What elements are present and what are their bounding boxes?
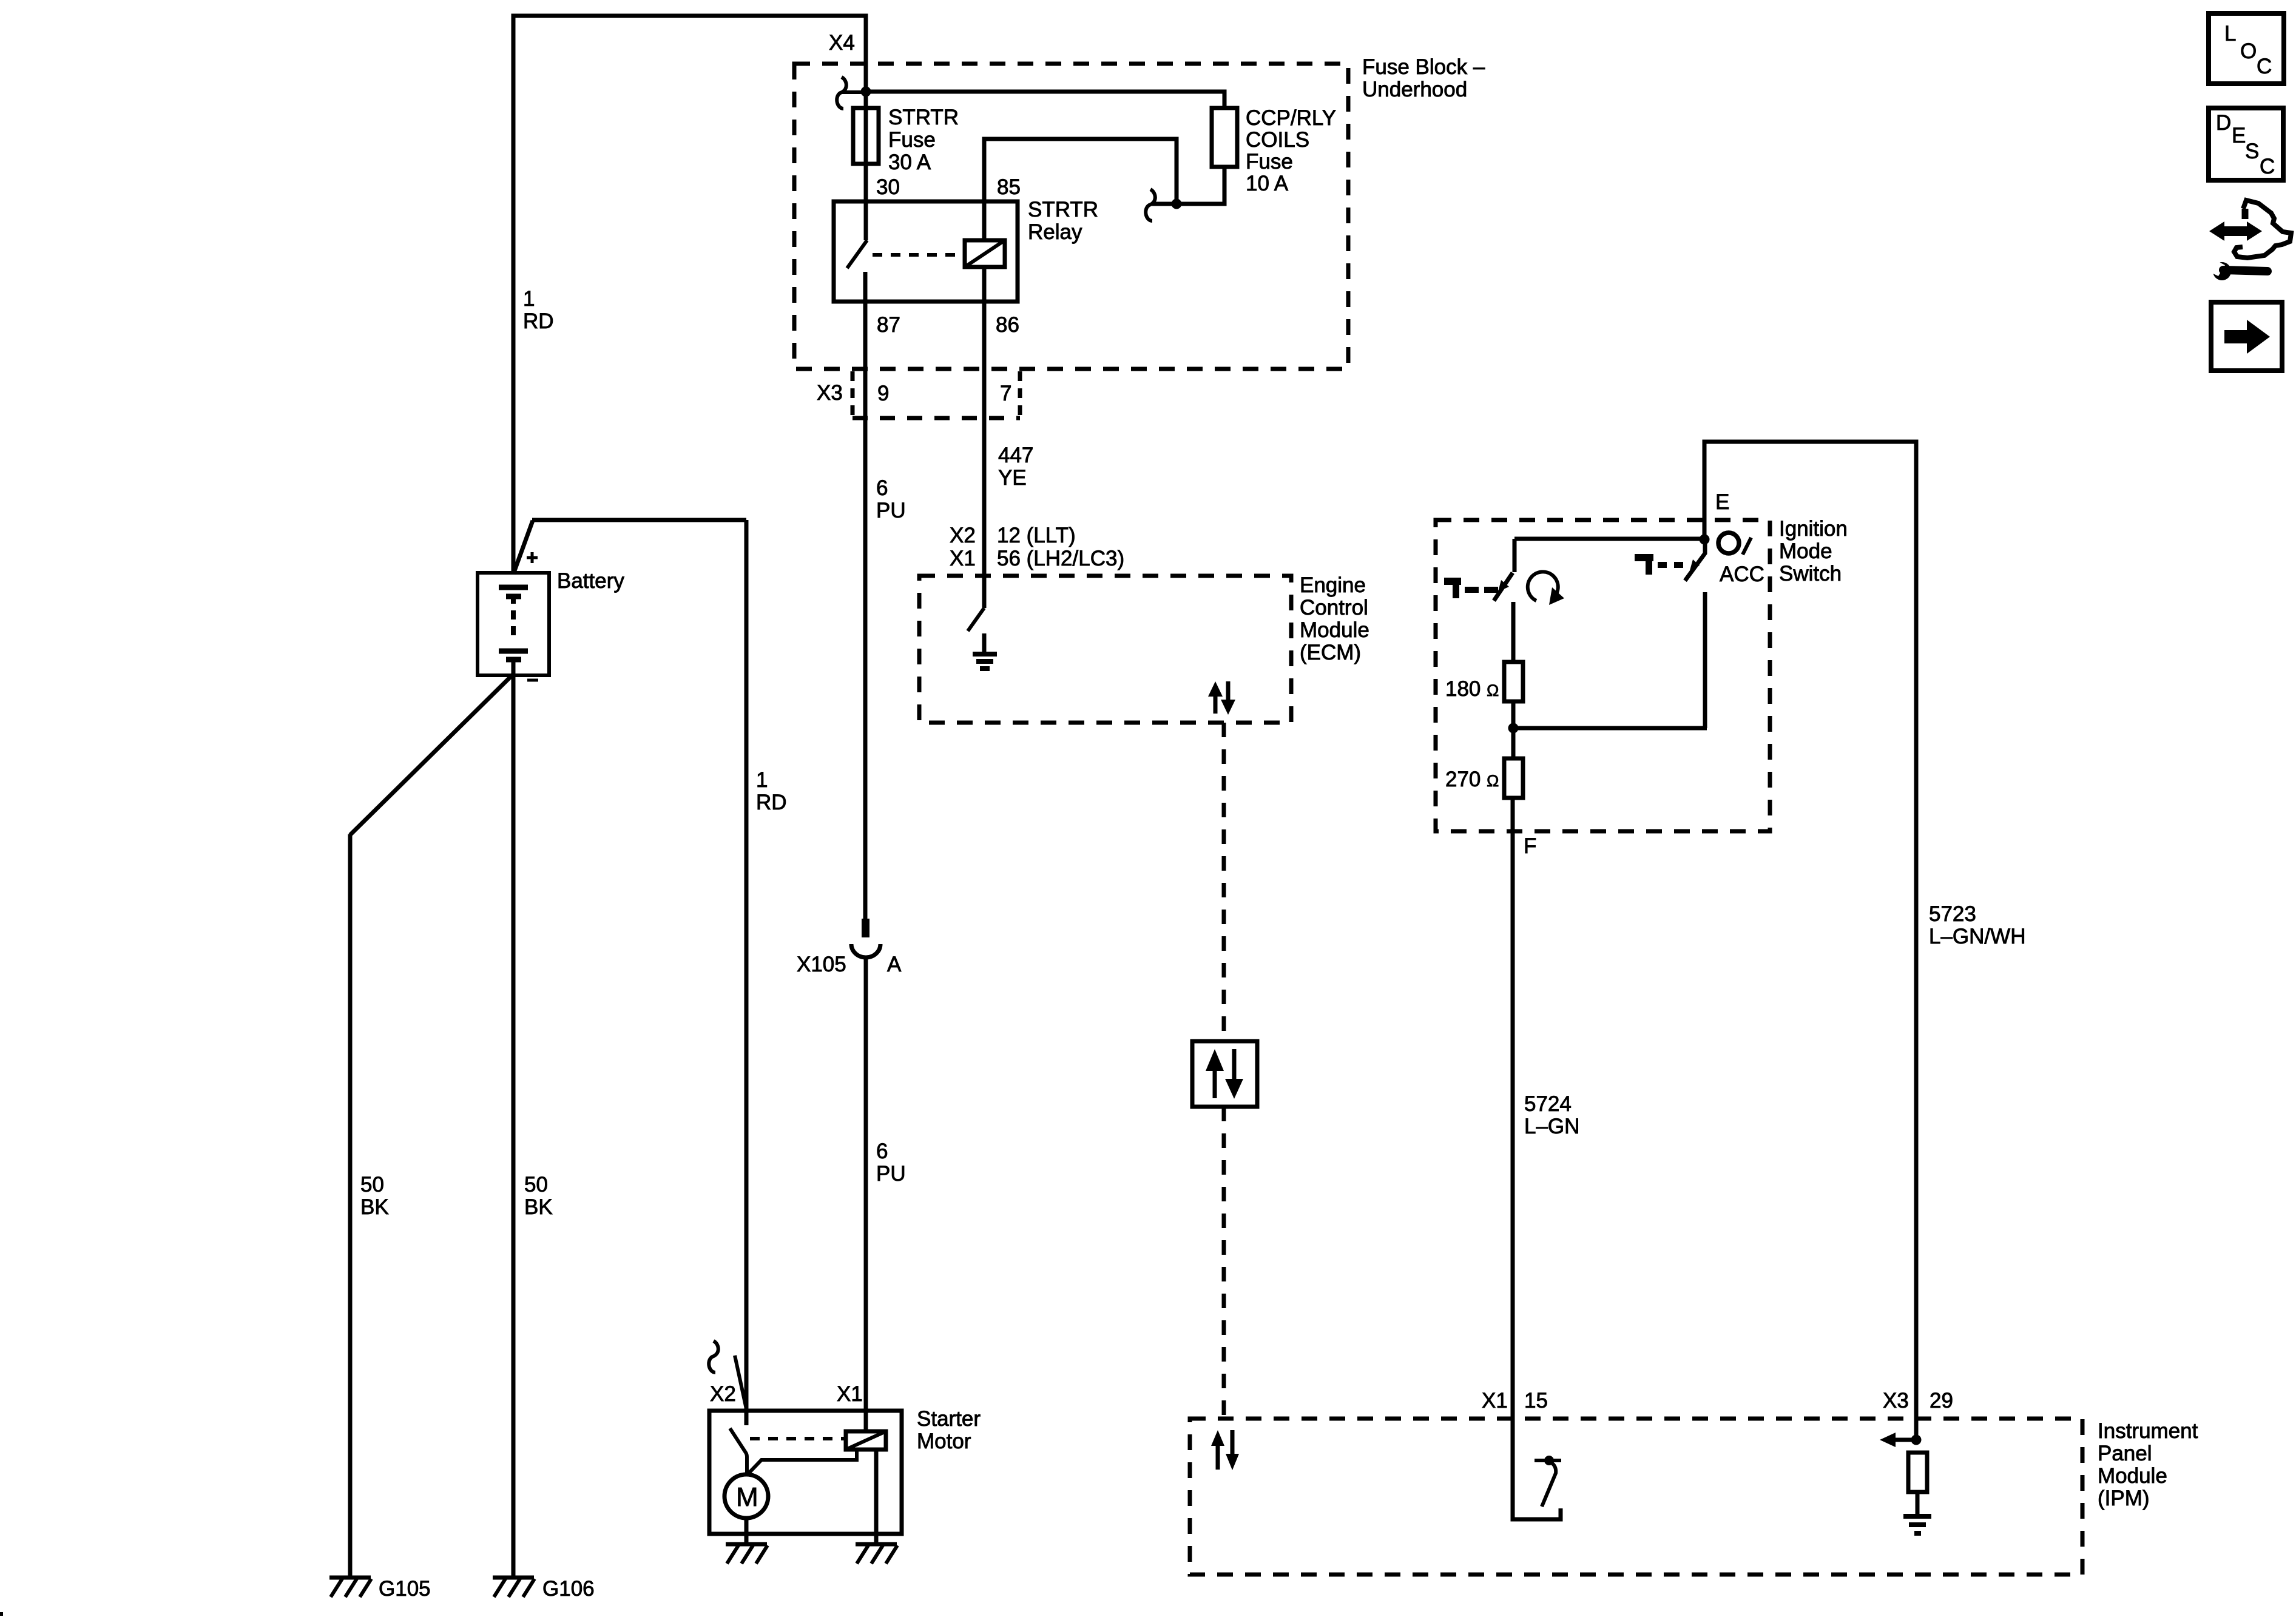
svg-text:Ignition: Ignition bbox=[1779, 517, 1848, 541]
wire motor to ground bbox=[745, 1518, 749, 1544]
svg-text:C: C bbox=[2257, 55, 2272, 78]
svg-text:STRTR: STRTR bbox=[1028, 198, 1098, 221]
ECM dashed box bbox=[919, 576, 1291, 723]
svg-text:Fuse: Fuse bbox=[1246, 150, 1293, 174]
serial data link box bbox=[1192, 1041, 1257, 1107]
svg-text:X1: X1 bbox=[1482, 1389, 1508, 1413]
svg-text:10 A: 10 A bbox=[1246, 172, 1289, 195]
svg-text:ACC: ACC bbox=[1720, 562, 1764, 586]
wire relay coil to pin 86 down to ECM bbox=[982, 267, 987, 608]
svg-text:30 A: 30 A bbox=[888, 150, 931, 174]
relay switch output stub pin 87 bbox=[863, 272, 868, 919]
svg-text:COILS: COILS bbox=[1246, 128, 1309, 152]
wire from X4 node through STRTR fuse to relay pin 30 bbox=[864, 92, 868, 240]
IPM serial data arrows bbox=[1211, 1430, 1239, 1470]
svg-text:X3: X3 bbox=[817, 381, 843, 405]
node X4 junction dot bbox=[861, 87, 871, 97]
svg-text:RD: RD bbox=[523, 309, 554, 333]
wire solenoid coil to ground bbox=[874, 1450, 879, 1544]
svg-text:6: 6 bbox=[876, 1139, 888, 1163]
run switch linkage bracket bbox=[1444, 578, 1461, 598]
node CCP junction dot bbox=[1172, 199, 1182, 209]
icon LOC box bbox=[2209, 13, 2284, 84]
svg-text:X3: X3 bbox=[1883, 1389, 1909, 1413]
serial data link arrows bbox=[1206, 1049, 1243, 1099]
node 5723 IPM junction dot bbox=[1911, 1435, 1922, 1445]
svg-text:Fuse: Fuse bbox=[888, 128, 936, 152]
wire solenoid to motor link bbox=[747, 1451, 857, 1475]
IPM pull resistor bbox=[1908, 1453, 1927, 1492]
svg-text:F: F bbox=[1524, 834, 1536, 858]
ACC switch linkage bracket bbox=[1635, 554, 1653, 575]
svg-text:Battery: Battery bbox=[557, 569, 624, 593]
svg-text:X1: X1 bbox=[950, 547, 976, 570]
icon DESC box bbox=[2209, 108, 2283, 180]
svg-text:Module: Module bbox=[1300, 618, 1369, 642]
svg-text:G106: G106 bbox=[542, 1577, 595, 1601]
ground starter motor bbox=[726, 1544, 768, 1564]
svg-text:BK: BK bbox=[524, 1195, 553, 1219]
wire positive feed horizontal to starter branch bbox=[532, 518, 746, 522]
svg-text:L–GN/WH: L–GN/WH bbox=[1929, 925, 2025, 948]
svg-text:BK: BK bbox=[360, 1195, 389, 1219]
svg-text:30: 30 bbox=[876, 175, 900, 199]
icon service double arrow bbox=[2209, 221, 2262, 241]
svg-text:29: 29 bbox=[1930, 1389, 1953, 1413]
svg-text:D: D bbox=[2216, 111, 2231, 135]
fuse STRTR 30A body bbox=[853, 108, 879, 164]
fuse block underhood dashed box bbox=[794, 64, 1348, 369]
ground G106 symbol bbox=[493, 1578, 535, 1597]
svg-text:RD: RD bbox=[756, 791, 787, 814]
svg-text:PU: PU bbox=[876, 1162, 906, 1186]
relay STRTR box bbox=[834, 201, 1018, 302]
ECM ground bars bbox=[973, 652, 997, 657]
svg-text:15: 15 bbox=[1524, 1389, 1548, 1413]
wire resistor to IPM ground bbox=[1916, 1492, 1920, 1515]
ground starter solenoid bbox=[856, 1544, 897, 1564]
wire 50 BK to G105 bbox=[348, 834, 353, 1578]
battery plus sign bbox=[527, 552, 538, 563]
svg-text:Control: Control bbox=[1300, 596, 1368, 619]
svg-text:Instrument: Instrument bbox=[2098, 1419, 2198, 1443]
starter actuate dashes bbox=[750, 1437, 845, 1440]
IPM ground bars bbox=[1903, 1516, 1931, 1533]
svg-text:L–GN: L–GN bbox=[1524, 1115, 1579, 1138]
svg-text:PU: PU bbox=[876, 499, 906, 522]
run switch linkage dashes bbox=[1465, 587, 1499, 593]
svg-text:447: 447 bbox=[998, 444, 1033, 467]
wire battery positive diagonal to feed bbox=[513, 521, 533, 574]
svg-text:Starter: Starter bbox=[917, 1407, 981, 1431]
connector X3 right dashes bbox=[1018, 371, 1022, 419]
svg-text:A: A bbox=[887, 953, 902, 976]
svg-text:1: 1 bbox=[756, 768, 768, 792]
starter solenoid coil diagonal bbox=[846, 1431, 886, 1450]
svg-text:O: O bbox=[2240, 39, 2257, 63]
fuse CCP/RLY COILS 10A body bbox=[1212, 108, 1237, 167]
ACC switch linkage dashes bbox=[1658, 562, 1684, 568]
resistor 270 ohm bbox=[1504, 758, 1523, 798]
wire ignition top crossbar bbox=[1514, 537, 1703, 541]
battery bottom cell plates bbox=[499, 649, 528, 654]
ECM internal switch blade bbox=[968, 608, 984, 631]
relay coil diagonal bbox=[965, 240, 1005, 267]
svg-text:E: E bbox=[2232, 124, 2246, 147]
IPM switch contact dot bbox=[1544, 1456, 1554, 1465]
ignition mode switch dashed box bbox=[1436, 520, 1770, 831]
svg-text:9: 9 bbox=[877, 382, 889, 405]
wire run blade to 180 ohm resistor bbox=[1511, 602, 1516, 662]
starter switch blade bbox=[730, 1428, 747, 1475]
connector X3 bottom dashes bbox=[853, 416, 1020, 420]
wire CCP fuse down to junction bbox=[1152, 167, 1224, 204]
svg-text:STRTR: STRTR bbox=[888, 106, 959, 129]
svg-text:(ECM): (ECM) bbox=[1300, 641, 1361, 664]
wire terminal E up and over to 5723 run bbox=[1704, 442, 1916, 1440]
svg-text:5723: 5723 bbox=[1929, 902, 1976, 926]
svg-text:50: 50 bbox=[524, 1173, 548, 1197]
wire hook diagonal to X2 wire bbox=[735, 1355, 746, 1409]
svg-text:M: M bbox=[736, 1482, 758, 1512]
svg-text:Fuse Block –: Fuse Block – bbox=[1362, 55, 1485, 79]
battery cable hook at starter X2 bbox=[709, 1341, 718, 1372]
slash after key circle bbox=[1743, 538, 1751, 555]
wire junction to relay pin 85 bbox=[984, 139, 1177, 240]
ACC switch blade bbox=[1685, 540, 1705, 581]
IPM dashed box bbox=[1190, 1419, 2082, 1575]
wire divider node to ACC contact bbox=[1513, 726, 1707, 731]
battery internal dashes bbox=[511, 599, 516, 647]
svg-text:Engine: Engine bbox=[1300, 573, 1366, 597]
icon service car outline bbox=[2234, 200, 2291, 258]
ECM ground stem bbox=[982, 633, 987, 653]
svg-text:Underhood: Underhood bbox=[1362, 78, 1467, 101]
svg-text:7: 7 bbox=[1000, 382, 1011, 405]
svg-text:86: 86 bbox=[996, 313, 1019, 337]
ECM serial data arrows bbox=[1208, 681, 1235, 715]
relay coil box bbox=[965, 240, 1005, 267]
battery cable hook at X4 bbox=[837, 77, 846, 109]
battery minus sign bbox=[527, 679, 538, 682]
wire serial data dashed lower bbox=[1222, 1107, 1226, 1419]
icon service wrench bbox=[2203, 257, 2267, 280]
icon LOC letters bbox=[2224, 22, 2272, 78]
wire hook stub to X4 node bbox=[842, 90, 862, 94]
connector X3 left dashes bbox=[851, 371, 855, 419]
starter solenoid coil box bbox=[846, 1431, 886, 1450]
ground G105 symbol bbox=[329, 1578, 371, 1597]
node E junction dot bbox=[1700, 535, 1710, 545]
svg-text:Mode: Mode bbox=[1779, 539, 1832, 563]
page corner mark bbox=[0, 1612, 3, 1616]
starter motor box bbox=[709, 1411, 902, 1534]
battery top cell plates bbox=[499, 585, 528, 590]
resistor 180 ohm bbox=[1504, 662, 1523, 701]
wire serial data dashed upper bbox=[1222, 723, 1226, 1040]
svg-text:Panel: Panel bbox=[2098, 1442, 2152, 1465]
svg-text:Motor: Motor bbox=[917, 1430, 971, 1453]
svg-text:YE: YE bbox=[998, 466, 1027, 490]
svg-text:C: C bbox=[2260, 155, 2275, 178]
svg-text:5724: 5724 bbox=[1524, 1092, 1572, 1116]
key circle symbol bbox=[1718, 533, 1739, 553]
wire battery negative diagonal bbox=[350, 674, 513, 835]
ignition run contact down stub bbox=[1513, 539, 1517, 572]
icon next arrow bbox=[2224, 320, 2270, 354]
node divider junction dot bbox=[1508, 723, 1519, 734]
relay actuate dashes bbox=[873, 253, 962, 257]
svg-text:X105: X105 bbox=[797, 953, 846, 976]
ACC contact vertical bbox=[1703, 592, 1707, 728]
svg-text:E: E bbox=[1715, 490, 1729, 514]
svg-text:X4: X4 bbox=[829, 31, 855, 55]
ignition run switch blade bbox=[1494, 573, 1513, 601]
svg-text:(IPM): (IPM) bbox=[2098, 1487, 2150, 1510]
wire X4 node to CCP/RLY COILS fuse bbox=[866, 92, 1224, 108]
IPM switch blade bbox=[1542, 1462, 1556, 1507]
wire 5724 terminal F down to IPM switch bbox=[1513, 798, 1561, 1519]
svg-text:CCP/RLY: CCP/RLY bbox=[1246, 106, 1336, 130]
svg-text:85: 85 bbox=[997, 175, 1021, 199]
svg-text:87: 87 bbox=[877, 313, 900, 337]
svg-text:G105: G105 bbox=[379, 1577, 431, 1601]
svg-text:Relay: Relay bbox=[1028, 220, 1082, 244]
svg-text:L: L bbox=[2224, 22, 2236, 46]
IPM input arrow bbox=[1880, 1433, 1915, 1447]
wire 180 ohm to divider node bbox=[1511, 701, 1516, 758]
svg-text:56 (LH2/LC3): 56 (LH2/LC3) bbox=[997, 547, 1124, 570]
battery cable hook at CCP junction bbox=[1146, 189, 1155, 221]
svg-text:1: 1 bbox=[523, 287, 535, 311]
battery box bbox=[478, 573, 549, 675]
wire X105 to starter solenoid X1 bbox=[864, 957, 868, 1431]
svg-text:Module: Module bbox=[2098, 1464, 2167, 1488]
icon next arrow box bbox=[2211, 302, 2282, 371]
connector X105 socket arc bbox=[851, 944, 880, 957]
connector X105 male terminal bbox=[862, 919, 869, 937]
svg-text:X2: X2 bbox=[710, 1382, 736, 1406]
icon DESC letters bbox=[2216, 111, 2275, 178]
wire battery negative to G106 bbox=[512, 661, 516, 1578]
rotate arc symbol bbox=[1528, 572, 1564, 605]
svg-text:12 (LLT): 12 (LLT) bbox=[997, 524, 1076, 547]
svg-text:S: S bbox=[2245, 140, 2259, 163]
wire battery positive feed from top bbox=[513, 16, 866, 571]
svg-text:X2: X2 bbox=[950, 524, 976, 547]
svg-text:6: 6 bbox=[876, 476, 888, 500]
svg-text:Switch: Switch bbox=[1779, 562, 1842, 586]
svg-text:50: 50 bbox=[360, 1173, 384, 1197]
motor M circle bbox=[724, 1474, 768, 1518]
wire 1 RD branch down to starter X2 bbox=[745, 520, 749, 1425]
relay switch blade bbox=[847, 240, 867, 268]
IPM switch contact tick bbox=[1535, 1459, 1561, 1462]
svg-text:X1: X1 bbox=[837, 1382, 863, 1406]
